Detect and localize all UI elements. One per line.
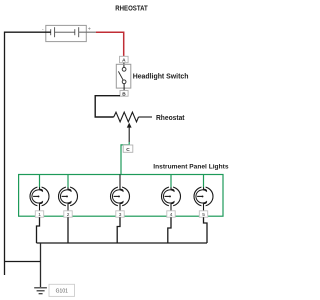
wire red battery to headlight switch A [96, 32, 124, 56]
rheostat wiper arrow [128, 127, 130, 142]
svg-text:B: B [122, 91, 126, 97]
wire B to rheostat (L path) [95, 96, 120, 117]
svg-text:Instrument Panel Lights: Instrument Panel Lights [153, 163, 229, 170]
ground bus wire [37, 242, 208, 244]
terminal A box [120, 56, 129, 62]
wire battery negative to left [5, 32, 51, 275]
lamp 2 [59, 175, 78, 219]
lamp 3 [111, 175, 130, 219]
ground label box G101 [49, 284, 75, 296]
wire lamp2 to ground bus [67, 217, 69, 243]
svg-text:1: 1 [38, 212, 41, 218]
wire green from wiper to C [121, 142, 129, 175]
wire lamp4 to ground bus [168, 217, 171, 243]
svg-text:A: A [122, 58, 126, 64]
terminal C box [123, 145, 133, 152]
switch contact top [122, 67, 126, 71]
switch blade [118, 71, 123, 80]
svg-text:G101: G101 [56, 288, 68, 294]
svg-text:2: 2 [67, 212, 70, 218]
instrument panel box [19, 175, 223, 217]
lamp 4 [162, 175, 181, 219]
lamp 1 [30, 175, 49, 219]
svg-text:RHEOSTAT: RHEOSTAT [115, 5, 148, 12]
terminal B box [120, 91, 128, 97]
svg-text:5: 5 [202, 212, 205, 218]
svg-text:4: 4 [170, 212, 173, 218]
svg-text:Rheostat: Rheostat [156, 115, 185, 122]
svg-text:Headlight Switch: Headlight Switch [133, 73, 189, 80]
wire switch bottom contact to B [123, 84, 125, 91]
svg-text:C: C [126, 147, 130, 153]
svg-text:3: 3 [119, 212, 122, 218]
wire A to switch contact [123, 63, 125, 68]
wire battery positive lead (gray) [79, 31, 96, 33]
wire lamp5 to ground bus [204, 217, 208, 243]
battery B+ box [46, 25, 87, 41]
wire battery negative branch to ground [5, 261, 41, 263]
wire lamp1 to ground bus [37, 217, 40, 243]
headlight switch box U1 [116, 64, 131, 88]
wire lamp3 to ground bus [117, 217, 120, 243]
ground G101 symbol [34, 288, 47, 294]
wire rheostat right lead [139, 116, 153, 118]
wire bus down to ground [40, 243, 42, 287]
battery cell plates [51, 27, 79, 37]
switch contact bottom [122, 80, 126, 84]
rheostat R1 zigzag [114, 112, 139, 122]
lamp 5 [194, 175, 213, 219]
